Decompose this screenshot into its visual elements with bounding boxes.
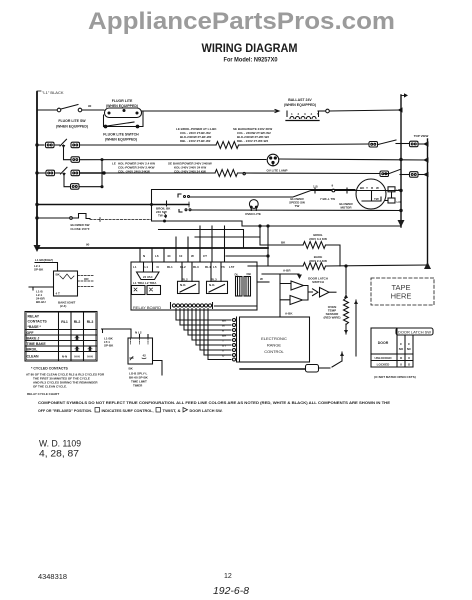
svg-text:L1 BK(60HZ): L1 BK(60HZ): [35, 258, 53, 262]
lamp fluorescent tube: [105, 108, 142, 118]
wire rail step: [242, 221, 401, 226]
svg-text:(RED WIRE): (RED WIRE): [324, 316, 341, 320]
wire staircase to ERC: [176, 309, 231, 321]
svg-text:DOOR LATCH SW.: DOOR LATCH SW.: [190, 408, 223, 413]
svg-text:L1: L1: [145, 265, 149, 269]
svg-text:7 BK-L TW: 7 BK-L TW: [320, 197, 335, 201]
board electronic range control: [240, 317, 310, 362]
wire relay feed drops: [140, 226, 225, 262]
svg-text:X: X: [400, 363, 402, 367]
svg-text:OV LITE LAMP: OV LITE LAMP: [267, 169, 288, 173]
svg-text:240V 3.4 KW: 240V 3.4 KW: [309, 237, 327, 241]
terminal hi/lo boxes: [386, 190, 401, 192]
svg-text:OVEN LITE: OVEN LITE: [245, 212, 261, 216]
svg-text:W: W: [191, 254, 194, 258]
box tape here: [371, 278, 434, 305]
svg-text:(WHEN EQUIPPED): (WHEN EQUIPPED): [106, 104, 138, 108]
svg-text:FLUOR LITE SW: FLUOR LITE SW: [58, 119, 86, 123]
resistor broil line: [215, 170, 238, 177]
svg-text:A-BR: A-BR: [283, 269, 291, 273]
svg-text:10: 10: [179, 254, 183, 258]
svg-text:DL: DL: [235, 273, 239, 277]
svg-text:BROIL: BROIL: [27, 348, 39, 352]
svg-text:RL4: RL4: [205, 265, 211, 269]
svg-text:90: 90: [86, 243, 90, 247]
svg-text:OFF: OFF: [27, 331, 35, 335]
svg-text:TW: TW: [374, 197, 379, 201]
svg-text:WIRING DIAGRAM: WIRING DIAGRAM: [202, 41, 298, 55]
box oven selector sw: [152, 190, 356, 205]
svg-text:RL3: RL3: [211, 277, 217, 281]
svg-text:N-N: N-N: [87, 355, 92, 359]
svg-text:RELAY: RELAY: [28, 315, 40, 319]
svg-text:RL2: RL2: [182, 277, 188, 281]
svg-text:12: 12: [224, 573, 232, 580]
svg-text:TW: TW: [158, 214, 163, 218]
svg-text:(WHEN EQUIPPED): (WHEN EQUIPPED): [105, 138, 137, 142]
svg-text:N L2: N L2: [135, 331, 142, 335]
svg-text:OFF OR "RELAXED" POSITION.: OFF OR "RELAXED" POSITION.: [38, 408, 92, 413]
svg-text:(X=NOT MATED OPEN CKTS): (X=NOT MATED OPEN CKTS): [374, 375, 416, 379]
svg-text:CT: CT: [203, 254, 207, 258]
svg-text:L6: L6: [155, 254, 159, 258]
switch blower thermal: [36, 217, 38, 219]
svg-text:GY: GY: [222, 344, 226, 348]
svg-text:RELAY CYCLE CHART: RELAY CYCLE CHART: [27, 392, 59, 396]
svg-text:CLEAN: CLEAN: [27, 355, 40, 359]
wire broil relay line: [36, 172, 38, 174]
svg-text:RL1: RL1: [167, 265, 173, 269]
svg-text:N.O.: N.O.: [180, 283, 186, 287]
switch latch: [332, 361, 342, 367]
wire ERC bottom: [240, 368, 305, 370]
svg-text:LOCKED: LOCKED: [377, 363, 391, 367]
wire mid rail: [159, 230, 244, 249]
fuse thermal: [306, 365, 319, 373]
buffer triangle 1: [291, 281, 304, 290]
svg-text:N-N: N-N: [74, 355, 79, 359]
wire ballast to bus: [318, 110, 325, 112]
lamp oven light OV LITE: [267, 154, 279, 166]
svg-text:X: X: [408, 356, 410, 360]
svg-text:BALLAST 24V: BALLAST 24V: [288, 98, 312, 102]
svg-text:COMPONENT SYMBOLS DO NOT REFLE: COMPONENT SYMBOLS DO NOT REFLECT TRUE CO…: [38, 400, 390, 405]
switch contact RL1: [54, 139, 67, 146]
bus right vertical 2: [427, 139, 429, 265]
svg-text:L1 TRIA L2 TRIA: L1 TRIA L2 TRIA: [133, 281, 157, 285]
svg-text:N.O.: N.O.: [209, 283, 215, 287]
svg-text:TIME BAKE: TIME BAKE: [27, 342, 47, 346]
svg-text:ELECTRONIC: ELECTRONIC: [261, 336, 287, 341]
inductor ballast: [287, 111, 319, 117]
sensor oven temp: [345, 266, 347, 294]
buffer triangle 3: [320, 288, 330, 298]
transformer 24vac: [137, 272, 160, 280]
table relay contacts: [25, 312, 97, 362]
svg-text:* CYCLED CONTACTS: * CYCLED CONTACTS: [31, 367, 69, 371]
svg-text:BK-BU: BK-BU: [36, 300, 46, 304]
svg-text:90: 90: [88, 104, 92, 108]
svg-text:4, 28, 87: 4, 28, 87: [39, 449, 79, 460]
svg-text:DBL - 240V 2T-BF-W2: DBL - 240V 2T-BF-W2: [180, 139, 211, 143]
svg-text:For Model: N9257X0: For Model: N9257X0: [224, 57, 278, 64]
svg-text:COL -240V 2400 24KW: COL -240V 2400 24KW: [118, 170, 150, 174]
svg-text:W: W: [376, 186, 379, 190]
svg-text:L1: L1: [133, 265, 137, 269]
svg-text:24 VAC: 24 VAC: [143, 275, 153, 279]
wire selector feed: [37, 204, 189, 206]
svg-text:Y: Y: [366, 186, 368, 190]
switch blower speed: [311, 190, 332, 192]
svg-text:DOOR LATCH SW: DOOR LATCH SW: [398, 331, 432, 335]
svg-text:192-6-8: 192-6-8: [213, 586, 249, 597]
svg-text:MOTOR: MOTOR: [340, 206, 352, 210]
switch right top: [378, 140, 396, 145]
svg-text:AppliancePartsPros.com: AppliancePartsPros.com: [88, 8, 395, 35]
svg-text:W: W: [222, 324, 225, 328]
resistor broil element: [303, 242, 325, 249]
svg-text:LE: LE: [112, 162, 116, 166]
svg-text:HI: HI: [397, 188, 400, 192]
svg-text:NO: NO: [399, 347, 404, 351]
wire tube to ballast: [142, 110, 278, 112]
bus neutral rail: [37, 247, 268, 249]
wire broil element: [259, 225, 261, 227]
connector relay board: [171, 303, 213, 309]
wire sensor return: [355, 300, 357, 356]
svg-text:L5: L5: [213, 265, 217, 269]
motor blower: [356, 179, 386, 209]
svg-text:L5T: L5T: [229, 265, 235, 269]
svg-text:240V 2.4 KW: 240V 2.4 KW: [309, 259, 327, 263]
switch fluor lite sw: [57, 108, 61, 112]
svg-text:4348318: 4348318: [38, 572, 67, 581]
wire loop to fluor switch: [104, 111, 144, 127]
svg-text:CONTACTS: CONTACTS: [28, 320, 48, 324]
resistor top heater: [216, 142, 239, 149]
junction bus bottom: [398, 220, 405, 227]
board relay board: [131, 262, 257, 310]
switch selector b: [179, 210, 182, 213]
svg-text:1 2 3 4 5: 1 2 3 4 5: [291, 112, 321, 116]
buffer triangle 2: [290, 296, 303, 305]
svg-text:RL3: RL3: [193, 265, 199, 269]
switch selector a: [178, 194, 181, 197]
svg-text:CONTROL: CONTROL: [264, 349, 284, 354]
wire branch lamp line: [64, 145, 72, 160]
svg-text:COL-240V 2400 24 KW: COL-240V 2400 24 KW: [174, 170, 206, 174]
wire bake relay line: [37, 144, 44, 146]
arrowhead bake to bus: [424, 262, 431, 269]
svg-text:(WHEN EQUIPPED): (WHEN EQUIPPED): [56, 125, 88, 129]
svg-text:4 T: 4 T: [56, 292, 61, 296]
svg-text:(WHEN EQUIPPED): (WHEN EQUIPPED): [284, 103, 316, 107]
svg-text:Y6: Y6: [221, 265, 225, 269]
svg-text:SWITCH: SWITCH: [312, 280, 324, 284]
svg-text:(2-4): (2-4): [60, 304, 66, 308]
flag top of bus: [401, 95, 406, 97]
svg-text:RL3: RL3: [87, 320, 94, 324]
svg-text:RL1: RL1: [61, 320, 68, 324]
svg-text:INDICATES SURF CONTROL,: INDICATES SURF CONTROL,: [102, 408, 154, 413]
svg-text:DOOR: DOOR: [378, 341, 389, 345]
svg-text:RANGE: RANGE: [267, 343, 282, 348]
clock box: [102, 329, 132, 338]
svg-text:A-BK: A-BK: [285, 312, 293, 316]
table door latch sw: [396, 328, 433, 335]
svg-text:SP-BK: SP-BK: [104, 344, 114, 348]
svg-text:DBL - 240V 2T-WF-W2: DBL - 240V 2T-WF-W2: [237, 139, 268, 143]
lamp oven lite: [249, 200, 258, 209]
svg-text:FLUOR LITE SWITCH: FLUOR LITE SWITCH: [103, 133, 139, 137]
svg-text:TW: TW: [295, 204, 300, 208]
wire branch lower: [64, 173, 71, 187]
svg-text:W: W: [260, 277, 263, 281]
wire lower step: [195, 236, 260, 238]
svg-text:RL2: RL2: [180, 265, 186, 269]
terminal box: [46, 142, 55, 148]
svg-text:FLUOR LITE: FLUOR LITE: [112, 99, 133, 103]
wire bake element: [267, 226, 269, 266]
svg-text:CLOSE 150°F: CLOSE 150°F: [70, 227, 89, 231]
bus right vertical 1: [400, 95, 402, 227]
svg-text:RELAY BOARD: RELAY BOARD: [133, 305, 161, 310]
svg-text:SP-BK: SP-BK: [34, 268, 44, 272]
svg-text:Y: Y: [222, 339, 224, 343]
svg-text:N-N: N-N: [62, 355, 67, 359]
svg-text:"L1" BLACK: "L1" BLACK: [42, 90, 64, 95]
arrowhead bottom of L1 bus: [34, 245, 41, 252]
svg-text:*BASE *: *BASE *: [28, 325, 42, 329]
svg-text:V: V: [222, 349, 224, 353]
bus L1 left vertical: [36, 92, 38, 248]
terminal box right: [369, 142, 378, 148]
resistor bake element: [303, 263, 325, 270]
svg-text:UNLOCKED: UNLOCKED: [375, 356, 393, 360]
triac boxes: [132, 286, 146, 295]
svg-text:TOP VIEW: TOP VIEW: [414, 134, 429, 138]
svg-text:N: N: [157, 265, 159, 269]
switch fluor lite switch: [104, 125, 107, 128]
svg-text:OF THE CLEAN CYCLE.: OF THE CLEAN CYCLE.: [33, 385, 67, 389]
svg-text:TWIST, &: TWIST, &: [163, 408, 181, 413]
svg-text:42: 42: [143, 354, 147, 358]
wire to bake element: [80, 144, 216, 146]
wire board internal drops: [144, 262, 222, 281]
svg-text:HERE: HERE: [391, 292, 412, 301]
svg-text:N: N: [143, 254, 145, 258]
svg-text:LO: LO: [397, 200, 402, 204]
svg-text:BAKE J: BAKE J: [27, 337, 40, 341]
svg-text:TIMER: TIMER: [133, 384, 143, 388]
wire fluor line: [37, 109, 57, 111]
svg-text:RL2: RL2: [74, 320, 81, 324]
